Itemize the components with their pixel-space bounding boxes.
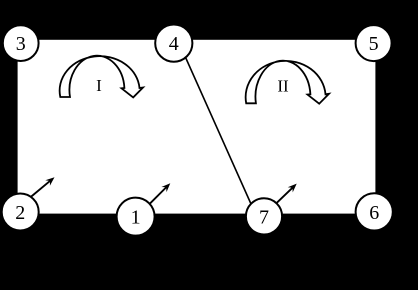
node 1 (117, 198, 155, 236)
loop arrow I (clockwise moment arc) (60, 56, 143, 98)
svg-text:1: 1 (131, 207, 141, 229)
loop arrow II (clockwise moment arc) (246, 61, 329, 104)
arrow at node 1 (150, 183, 171, 204)
svg-text:4: 4 (169, 33, 179, 55)
node 7 (246, 198, 282, 234)
rectangle frame (white face of diagram) (18, 40, 376, 214)
svg-text:7: 7 (259, 206, 269, 228)
node 6 (356, 193, 393, 230)
node 2 (2, 194, 39, 231)
arrow at node 2 (30, 177, 55, 198)
svg-text:3: 3 (16, 33, 26, 55)
arrow at node 7 (276, 184, 297, 204)
svg-text:5: 5 (369, 33, 379, 55)
node 3 (3, 25, 39, 61)
node 5 (356, 25, 392, 61)
svg-text:I: I (96, 76, 102, 95)
node 4 (155, 24, 192, 61)
wire: diagonal member from node 4 to node 7 (180, 45, 254, 210)
svg-text:II: II (277, 77, 289, 96)
svg-text:6: 6 (369, 202, 379, 224)
svg-text:2: 2 (15, 202, 25, 224)
